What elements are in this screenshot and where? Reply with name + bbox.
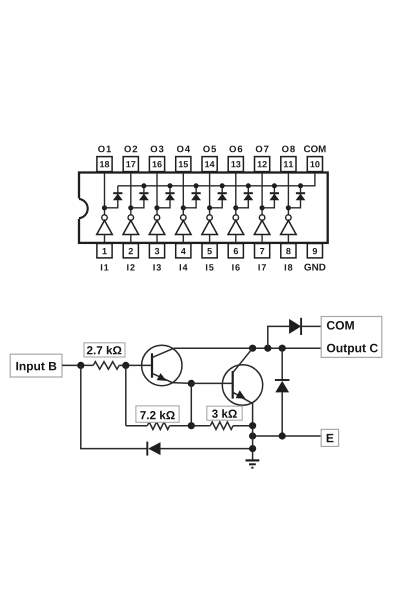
wire Input B to node IN — [62, 364, 93, 366]
label box 7.2 kΩ — [136, 406, 179, 422]
wire node O8 to diode D8 — [288, 200, 300, 208]
wire pin 13 to node O6 — [235, 173, 237, 215]
label I7 — [258, 264, 265, 270]
wire driver 3 input to pin 3 — [156, 235, 158, 243]
pin 16 box — [149, 157, 164, 172]
junction diode D6 on COM rail — [246, 183, 251, 188]
inverter driver 5 bubble — [207, 215, 213, 221]
diode D5 (flyback to COM) — [217, 186, 227, 201]
wire driver 6 input to pin 6 — [235, 235, 237, 243]
inverter driver 1 — [97, 220, 113, 234]
wire emitter rail to E — [253, 435, 322, 437]
label I3 — [153, 264, 161, 270]
label I6 — [232, 264, 240, 270]
wire pin 16 to node O3 — [156, 173, 158, 215]
pin 3 box — [149, 244, 164, 258]
label COM (pin 10) — [304, 145, 326, 152]
inverter driver 7 bubble — [259, 215, 265, 221]
wire driver 7 input to pin 7 — [261, 235, 263, 243]
resistor R2 7.2 kΩ — [126, 422, 192, 430]
wire node O4 to diode D4 — [183, 200, 196, 208]
inverter driver 1 bubble — [102, 215, 108, 221]
inverter driver 4 — [176, 220, 192, 234]
wire node E1 down to resistor rail — [190, 383, 192, 425]
wire pin 18 to node O1 — [104, 173, 106, 215]
node B1 junction — [122, 362, 129, 369]
inverter driver 8 — [281, 220, 297, 234]
pin 14 box — [202, 157, 217, 172]
node O7 junction — [260, 205, 265, 210]
pin 11 box — [281, 157, 296, 172]
wire driver 2 input to pin 2 — [130, 235, 132, 243]
label O8 — [282, 146, 295, 153]
pin 2 box — [123, 244, 138, 258]
pin 1 box — [97, 244, 112, 258]
inverter driver 3 — [149, 220, 165, 234]
node clamp diode junction — [279, 345, 286, 352]
wire R1 to Q1 base — [119, 364, 152, 366]
inverter driver 5 — [202, 220, 218, 234]
inverter driver 6 bubble — [233, 215, 239, 221]
diode D6 (flyback to COM) — [243, 186, 253, 201]
node ground junction — [249, 445, 256, 452]
wire node B1 down to R2 — [125, 365, 127, 425]
node R2/R3 junction — [188, 422, 195, 429]
transistor Q1 (NPN) — [142, 345, 192, 385]
inverter driver 2 — [123, 220, 139, 234]
junction diode D3 on COM rail — [168, 183, 173, 188]
inverter driver 3 bubble — [154, 215, 160, 221]
wire driver 4 input to pin 4 — [182, 235, 184, 243]
label I5 — [206, 264, 214, 270]
inverter driver 4 bubble — [181, 215, 187, 221]
wire node O3 to diode D3 — [157, 200, 170, 208]
wire pin 11 to node O8 — [287, 173, 289, 215]
wire node E1 to Q2 base — [191, 382, 232, 384]
wire collector rail to Output C — [174, 347, 321, 349]
wire pin 12 to node O7 — [261, 173, 263, 215]
wire node O2 to diode D2 — [131, 200, 144, 208]
wire driver 5 input to pin 5 — [209, 235, 211, 243]
label O3 — [151, 146, 164, 153]
wire COM branch — [268, 326, 289, 348]
pin 9 box — [307, 244, 322, 258]
pin 4 box — [176, 244, 191, 258]
node O4 junction — [181, 205, 186, 210]
wire pin 15 to node O4 — [182, 173, 184, 215]
label I8 — [285, 264, 293, 270]
pin 5 box — [202, 244, 217, 258]
inverter driver 2 bubble — [128, 215, 134, 221]
label GND (pin 9) — [304, 264, 325, 271]
diode D7 (flyback to COM) — [270, 186, 280, 201]
junction diode D2 on COM rail — [141, 183, 146, 188]
junction diode D4 on COM rail — [194, 183, 199, 188]
pin 13 box — [228, 157, 243, 172]
diode D9 to COM — [289, 318, 321, 335]
wire node O7 to diode D7 — [262, 200, 274, 208]
diode D8 (flyback to COM) — [296, 186, 306, 201]
diode D1 (flyback to COM) — [113, 186, 123, 201]
pin 6 box — [228, 244, 243, 258]
inverter driver 7 — [254, 220, 270, 234]
wire node O6 to diode D6 — [236, 200, 249, 208]
wire node IN down to clamp diode — [81, 365, 148, 448]
node O5 junction — [207, 205, 212, 210]
label O6 — [229, 146, 242, 153]
COM rail (pin 10 net) — [118, 173, 315, 186]
node O1 junction — [102, 205, 107, 210]
pin 8 box — [281, 244, 296, 258]
node COM branch junction — [264, 345, 271, 352]
diode D4 (flyback to COM) — [191, 186, 201, 201]
label O7 — [256, 146, 269, 153]
wire pin 14 to node O5 — [209, 173, 211, 215]
transistor Q2 (NPN) — [222, 348, 262, 426]
ground — [246, 460, 260, 467]
wire pin 17 to node O2 — [130, 173, 132, 215]
junction diode D7 on COM rail — [272, 183, 277, 188]
diode D10 (E to Output C clamp) — [275, 348, 290, 436]
pin 15 box — [176, 157, 191, 172]
pin 7 box — [255, 244, 270, 258]
label I2 — [127, 264, 135, 270]
diode D2 (flyback to COM) — [139, 186, 149, 201]
resistor R3 3 kΩ — [191, 422, 252, 430]
label O4 — [177, 146, 190, 153]
node E1 junction — [188, 380, 195, 387]
node O6 junction — [233, 205, 238, 210]
node O3 junction — [154, 205, 159, 210]
label box 3 kΩ — [207, 406, 242, 420]
node IN junction — [77, 362, 84, 369]
pin 12 box — [255, 157, 270, 172]
wire node O5 to diode D5 — [210, 200, 223, 208]
label I1 — [101, 264, 109, 270]
wire Q2 emitter to ground — [252, 426, 254, 461]
node O8 junction — [286, 205, 291, 210]
label I4 — [180, 264, 188, 270]
node clamp diode anode junction — [279, 432, 286, 439]
node E rail left junction — [249, 432, 256, 439]
node Q2 collector junction — [249, 345, 256, 352]
label O1 — [98, 146, 111, 153]
inverter driver 6 — [228, 220, 244, 234]
resistor R1 2.7 kΩ — [93, 362, 119, 370]
pin 17 box — [123, 157, 138, 172]
label O2 — [124, 146, 137, 153]
wire driver 8 input to pin 8 — [287, 235, 289, 243]
pin-1 index notch — [77, 198, 88, 219]
diode D11 (input clamp) — [147, 442, 252, 456]
COM / Output C terminal box — [321, 317, 382, 358]
diode D3 (flyback to COM) — [165, 186, 175, 201]
junction diode D8 on COM rail — [298, 183, 303, 188]
wire node O1 to diode D1 — [105, 200, 118, 208]
pin 18 box — [97, 157, 112, 172]
node O2 junction — [128, 205, 133, 210]
Input B terminal box — [10, 354, 62, 377]
inverter driver 8 bubble — [286, 215, 292, 221]
label O5 — [203, 146, 216, 153]
IC package body U1 (DIP-18 outline) — [79, 173, 328, 243]
wire driver 1 input to pin 1 — [104, 235, 106, 243]
label box 2.7 kΩ — [84, 343, 125, 357]
node Q2 emitter junction — [249, 422, 256, 429]
pin 10 box — [307, 157, 322, 172]
E terminal box — [321, 429, 338, 446]
junction diode D5 on COM rail — [220, 183, 225, 188]
